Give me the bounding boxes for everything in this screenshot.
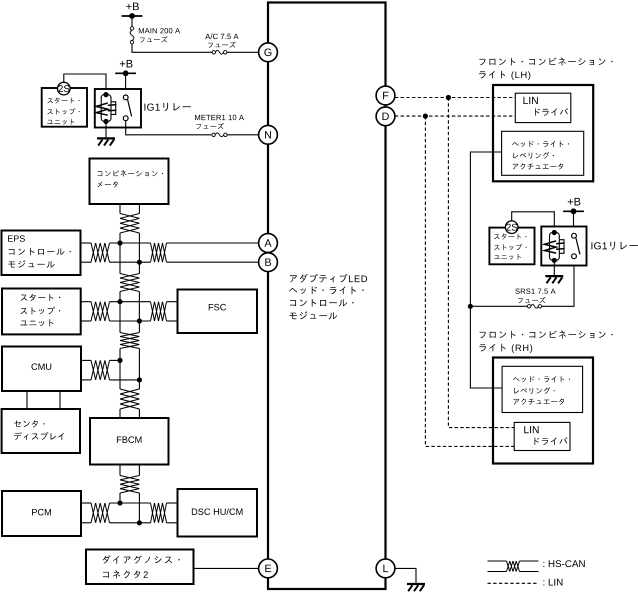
- twisted pair (A row to start-stop row): [120, 274, 139, 292]
- wire SSU row across bus: [110, 302, 151, 321]
- box CMU: [2, 347, 81, 392]
- legend HS-CAN twisted pair symbol: [488, 561, 539, 572]
- LIN wire F to LH LIN driver: [395, 97, 515, 99]
- box FBCM: [90, 418, 169, 465]
- wire EPS stubs: [81, 243, 92, 262]
- twisted pair (meter to node A row): [120, 214, 139, 234]
- wire SRS1 fuse to relay switch: [470, 259, 574, 307]
- wire MAIN fuse to A/C fuse: [132, 44, 212, 52]
- wire pin L to ground: [395, 568, 416, 583]
- label front combination light RH: [479, 331, 612, 353]
- pin N: [259, 125, 278, 144]
- box start-stop unit (left of relay): [42, 88, 87, 127]
- box FSC: [178, 290, 258, 334]
- legend label HS-CAN: [543, 560, 584, 567]
- pin F: [376, 86, 395, 105]
- LIN wire F branch down to RH LIN driver: [448, 98, 514, 428]
- label SRS1 7.5 A fuse: [515, 289, 555, 304]
- fuse A/C 7.5 A: [212, 50, 227, 54]
- box front combination light RH: [493, 358, 593, 464]
- module U1 box: adaptive LED headlight control module: [268, 3, 386, 590]
- wire +B to MAIN fuse: [131, 16, 133, 27]
- label front combination light LH: [479, 58, 612, 80]
- twisted pair (PCM to bus): [91, 503, 110, 523]
- wire to pin B: [167, 261, 259, 263]
- fuse MAIN 200 A: [130, 27, 134, 44]
- node junction (HS-CAN H, EPS row): [117, 240, 122, 245]
- wire bus segment 7: [120, 493, 139, 523]
- wire bus segment: [120, 233, 139, 262]
- box center display: [2, 409, 80, 453]
- node junction (HS-CAN L, EPS row): [137, 260, 142, 265]
- pin E: [259, 559, 278, 578]
- twisted pair (SSU to bus): [91, 302, 110, 321]
- twisted pair (EPS to bus): [91, 243, 110, 262]
- box EPS control module: [2, 231, 81, 276]
- node junction (HS-CAN L, SSU row): [137, 318, 142, 323]
- wire start-stop 2S to right relay coil: [512, 212, 555, 233]
- wire bus segment 2: [120, 243, 139, 274]
- box LIN driver LH: [515, 93, 571, 122]
- node junction (HS-CAN L, PCM row): [137, 520, 142, 525]
- box combination meter: [90, 159, 169, 205]
- wire bus stubs below meter: [120, 204, 139, 214]
- legend label LIN: [543, 579, 562, 586]
- wire METER1 fuse to pin N: [227, 134, 258, 136]
- wire CMU stubs: [81, 360, 91, 380]
- pin G: [259, 43, 278, 62]
- ground (module pin L): [407, 584, 425, 591]
- label IG1 relay (right): [591, 241, 637, 249]
- ground (left relay coil): [97, 121, 115, 145]
- twisted pair (bus to FSC): [151, 302, 167, 321]
- twisted pair (SSU row to CMU row): [120, 333, 139, 349]
- label MAIN 200 A fuse: [139, 28, 180, 43]
- wire diagnosis to pin E: [194, 567, 259, 569]
- power +B terminal (IG1 relay right): [563, 198, 584, 214]
- ground (right relay coil): [545, 260, 563, 283]
- wire to pin A: [167, 242, 259, 244]
- label IG1 relay (left): [144, 103, 190, 111]
- node junction (HS-CAN H, PCM row): [117, 500, 122, 505]
- wire bus segment 4: [120, 302, 139, 333]
- connector 2S circle (right): [505, 221, 518, 234]
- LIN wire D branch down to RH LIN driver: [425, 116, 514, 446]
- box start-stop unit (column): [2, 289, 81, 335]
- wire relay switch to METER1 fuse: [126, 121, 212, 135]
- wire to DSC: [167, 503, 178, 523]
- twisted pair (bus to pins A/B): [151, 243, 167, 262]
- pin D: [376, 107, 395, 126]
- twisted pair (CMU row to FBCM): [120, 389, 139, 409]
- node junction (HS-CAN H, SSU row): [117, 299, 122, 304]
- wire actuator supply (LH to RH vertical): [470, 152, 502, 388]
- relay K2: IG1 relay (right): [541, 227, 586, 266]
- fuse METER1 10 A: [212, 133, 227, 137]
- wire PCM row across bus: [110, 503, 151, 523]
- wire to FSC: [167, 302, 178, 321]
- wire SSU stubs: [81, 302, 91, 321]
- wire bus into FBCM: [120, 409, 139, 418]
- LIN wire D to LH LIN driver: [395, 115, 515, 117]
- box start-stop unit (right): [489, 228, 534, 265]
- box diagnosis connector 2: [86, 550, 194, 585]
- wire start-stop 2S to relay coil: [64, 74, 106, 95]
- wire bus below FBCM: [120, 465, 139, 476]
- power +B terminal (battery, top): [122, 3, 143, 19]
- fuse SRS1 7.5 A: [527, 304, 541, 308]
- twisted pair (bus to DSC): [151, 503, 167, 523]
- twisted pair (FBCM to PCM row): [120, 476, 139, 494]
- wire A/C fuse to pin G: [227, 51, 259, 53]
- node junction (HS-CAN L, CMU row): [137, 377, 142, 382]
- power +B terminal (IG1 relay left): [115, 60, 136, 76]
- pin A: [259, 234, 278, 253]
- box front combination light LH: [493, 85, 593, 181]
- wire +B into relay switch: [125, 73, 127, 97]
- wire bus segment 6: [120, 360, 139, 389]
- connector 2S circle (left): [58, 82, 71, 95]
- twisted pair (CMU to bus): [91, 360, 110, 380]
- relay K1: IG1 relay (left): [95, 89, 141, 128]
- wire +B into right relay switch: [573, 211, 575, 235]
- wire PCM stubs: [81, 503, 91, 523]
- wire CMU row to bus lines: [110, 360, 140, 380]
- wire bus segment 5: [120, 349, 139, 380]
- node junction on F LIN wire: [446, 95, 451, 100]
- label METER1 10 A fuse: [195, 115, 244, 129]
- wire CMU to center display: [27, 391, 60, 409]
- pin L: [376, 559, 395, 578]
- box headlight leveling actuator RH: [502, 366, 582, 412]
- node junction on D LIN wire: [423, 114, 428, 119]
- wire bus segment 3: [120, 292, 139, 322]
- box PCM: [2, 491, 81, 536]
- box LIN driver RH: [514, 422, 570, 450]
- wire EPS row across bus: [110, 243, 151, 262]
- module U1 label: [289, 274, 367, 319]
- label A/C 7.5 A fuse: [205, 34, 238, 48]
- box DSC HU/CM: [178, 489, 258, 537]
- node junction actuator supply: [468, 304, 473, 309]
- legend LIN dashed symbol: [488, 582, 539, 584]
- pin B: [259, 253, 278, 272]
- node junction (HS-CAN H, CMU row): [117, 358, 122, 363]
- box headlight leveling actuator LH: [502, 131, 584, 175]
